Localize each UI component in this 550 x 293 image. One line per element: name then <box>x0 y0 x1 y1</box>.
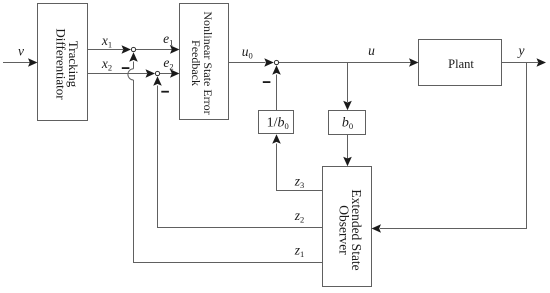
svg-text:Differentiator: Differentiator <box>54 28 69 100</box>
svg-text:Observer: Observer <box>337 205 352 255</box>
svg-text:y: y <box>517 43 525 58</box>
svg-text:Feedback: Feedback <box>189 40 203 86</box>
svg-text:u: u <box>368 43 375 58</box>
svg-text:v: v <box>18 44 24 59</box>
svg-text:Plant: Plant <box>448 57 474 71</box>
